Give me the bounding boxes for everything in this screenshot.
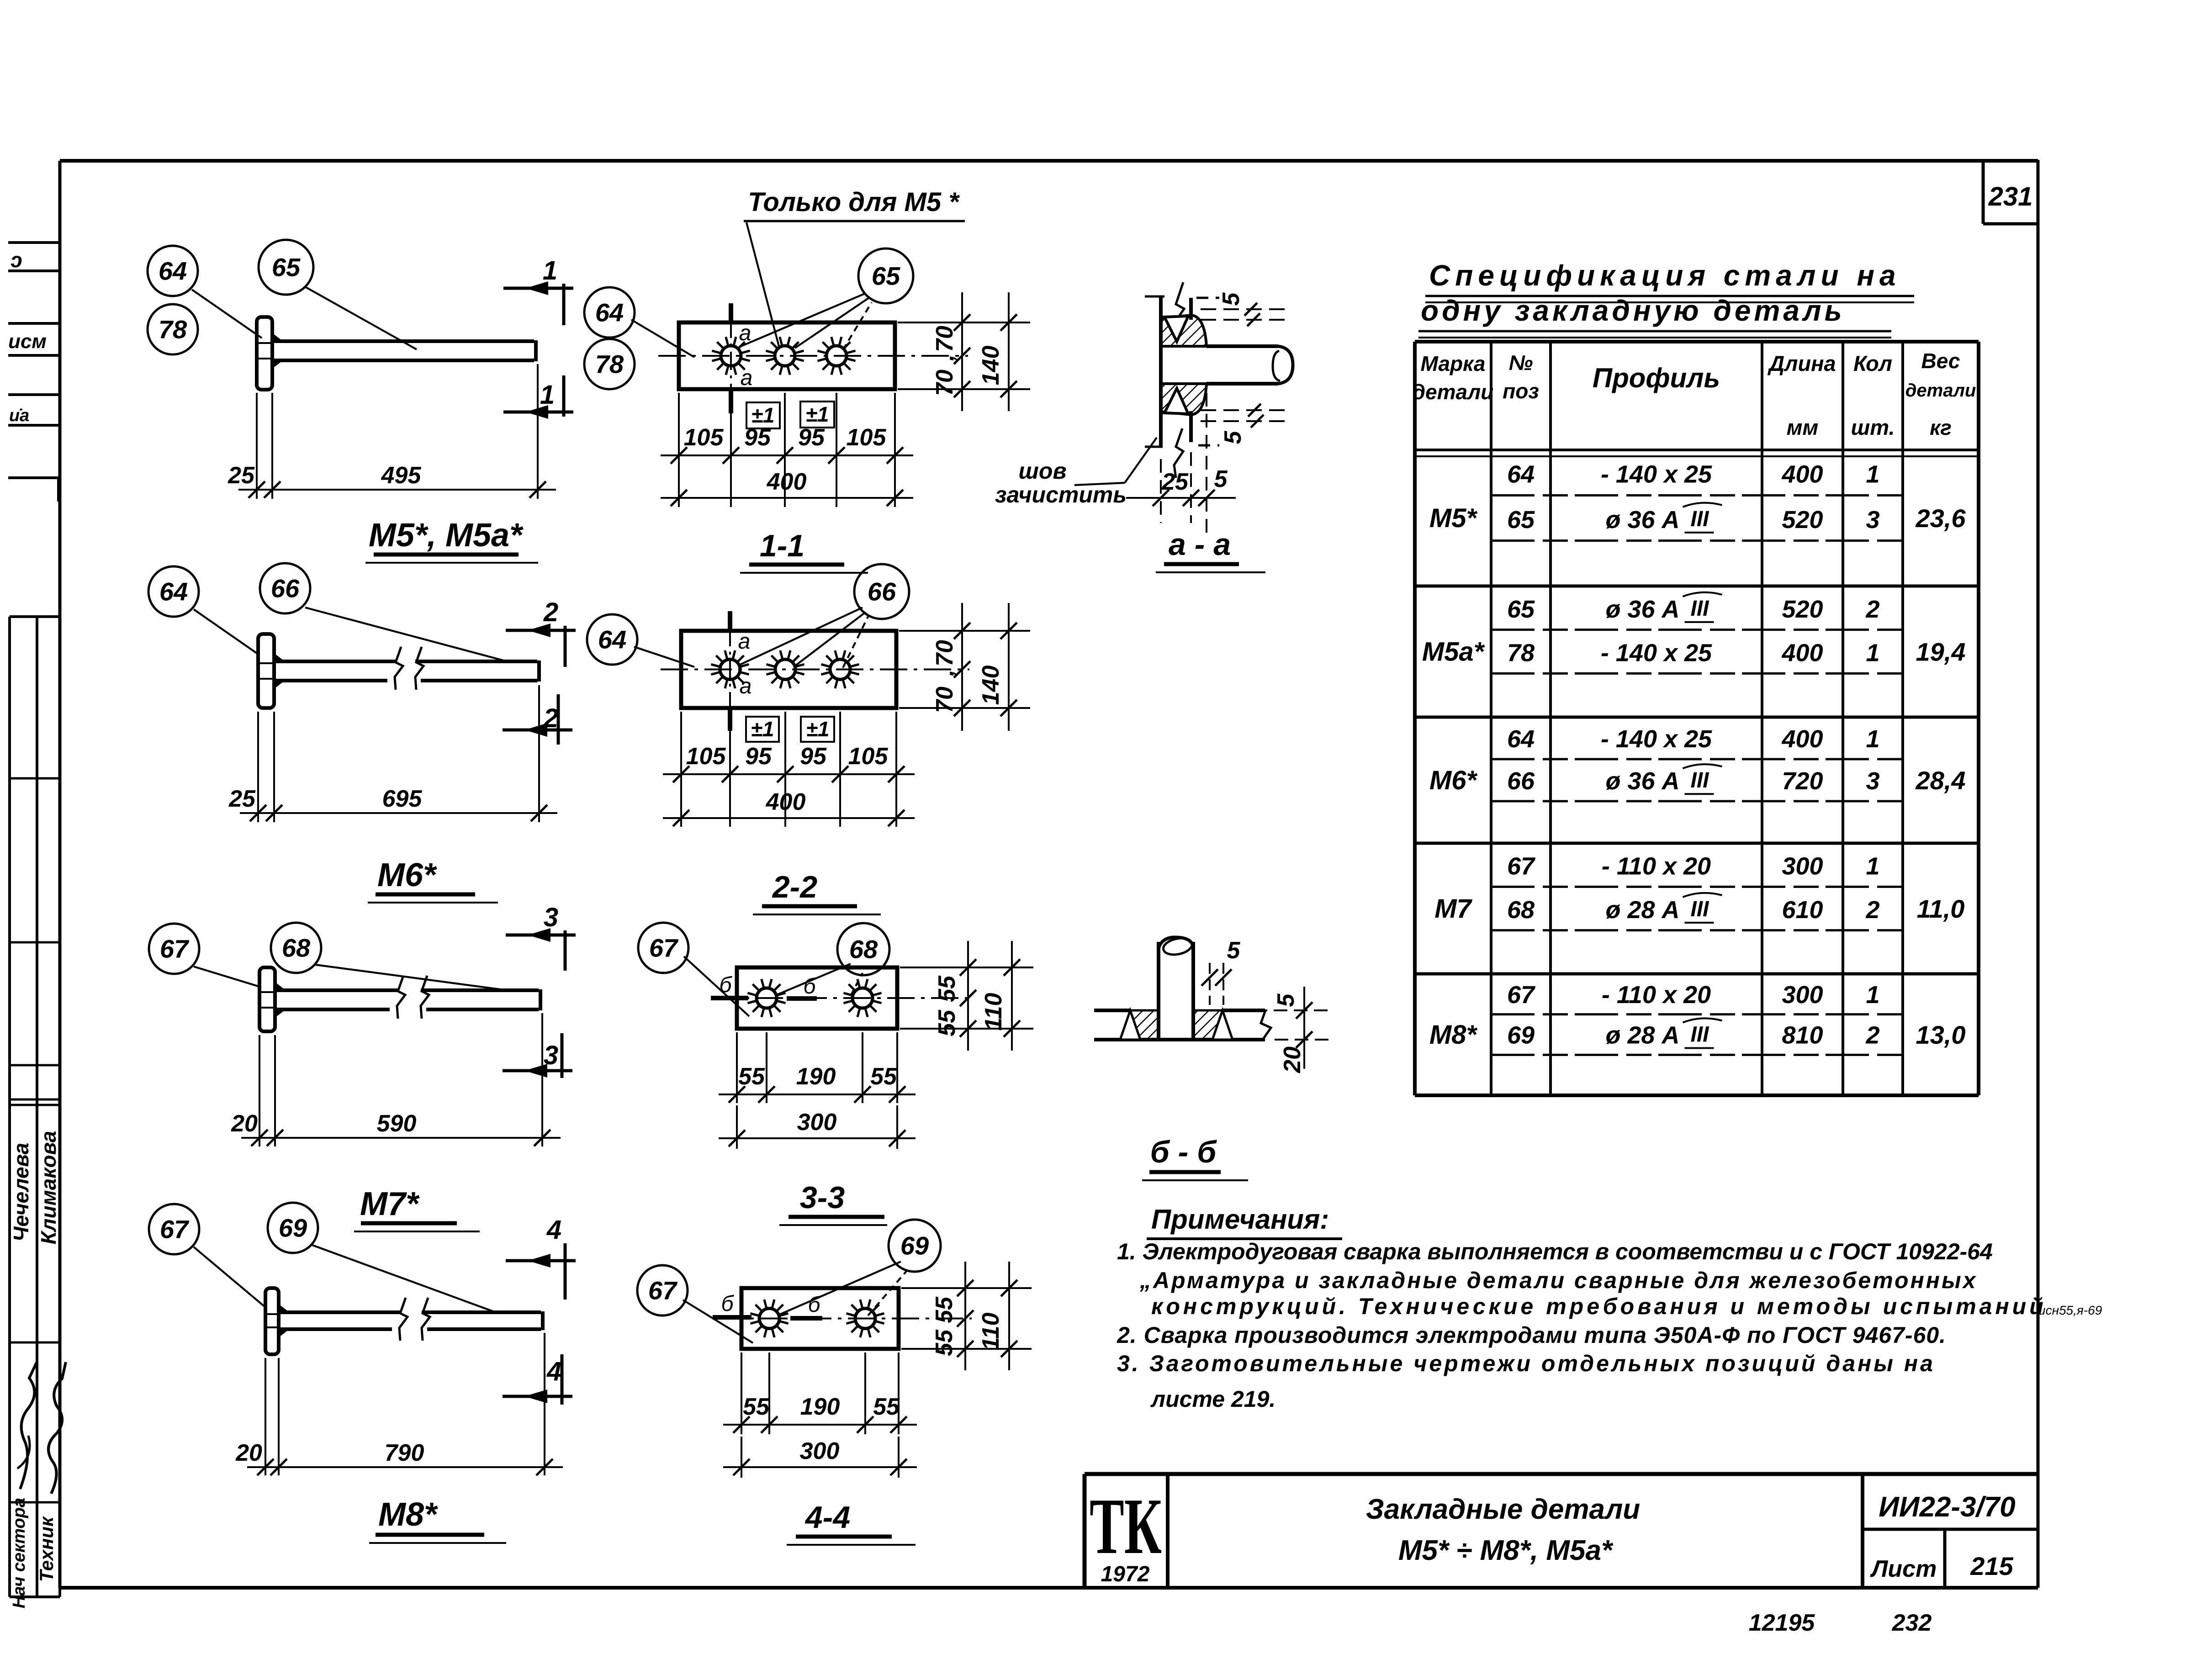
svg-text:3: 3 xyxy=(1866,506,1879,534)
svg-text:1: 1 xyxy=(543,256,557,285)
svg-text:ø 28 А: ø 28 А xyxy=(1605,1022,1679,1049)
svg-text:ИИ22-3/70: ИИ22-3/70 xyxy=(1879,1491,2015,1523)
svg-text:67: 67 xyxy=(160,1215,190,1244)
svg-text:III: III xyxy=(1690,1023,1709,1047)
svg-text:М6*: М6* xyxy=(377,857,437,893)
svg-text:4: 4 xyxy=(546,1357,561,1386)
svg-text:110: 110 xyxy=(980,993,1007,1030)
svg-text:67: 67 xyxy=(1507,981,1536,1009)
svg-text:ø 36 А: ø 36 А xyxy=(1605,596,1679,623)
svg-text:2: 2 xyxy=(543,703,558,733)
svg-text:- 140 x 25: - 140 x 25 xyxy=(1601,725,1712,753)
svg-text:28,4: 28,4 xyxy=(1916,766,1966,795)
svg-text:105: 105 xyxy=(847,424,887,451)
svg-text:„Арматура и закладные детали с: „Арматура и закладные детали сварные для… xyxy=(1139,1268,1977,1293)
svg-text:720: 720 xyxy=(1782,767,1823,795)
svg-text:поз: поз xyxy=(1503,379,1539,403)
svg-text:25: 25 xyxy=(228,462,255,489)
svg-text:a: a xyxy=(738,629,751,654)
svg-text:М7: М7 xyxy=(1434,894,1472,924)
svg-text:2-2: 2-2 xyxy=(772,870,817,904)
svg-text:зачистить: зачистить xyxy=(995,482,1127,507)
svg-text:67: 67 xyxy=(160,935,190,963)
svg-text:231: 231 xyxy=(1988,182,2033,211)
svg-text:105: 105 xyxy=(848,743,889,770)
svg-text:64: 64 xyxy=(159,577,188,606)
svg-text:400: 400 xyxy=(766,789,806,815)
svg-text:810: 810 xyxy=(1782,1022,1823,1049)
svg-text:66: 66 xyxy=(868,577,896,606)
svg-text:65: 65 xyxy=(872,262,900,291)
svg-text:400: 400 xyxy=(1781,461,1823,488)
svg-text:64: 64 xyxy=(1507,725,1535,753)
svg-text:695: 695 xyxy=(382,786,423,812)
svg-text:5: 5 xyxy=(1273,993,1299,1007)
svg-text:±1: ±1 xyxy=(806,402,829,426)
svg-text:64: 64 xyxy=(598,625,626,654)
svg-text:69: 69 xyxy=(279,1214,307,1242)
svg-text:1-1: 1-1 xyxy=(760,528,804,563)
svg-text:2: 2 xyxy=(1865,1022,1879,1049)
svg-text:2. Сварка производится электро: 2. Сварка производится электродами типа … xyxy=(1117,1322,1946,1348)
svg-text:68: 68 xyxy=(1507,896,1535,924)
svg-text:78: 78 xyxy=(1507,639,1535,667)
svg-text:Закладные детали: Закладные детали xyxy=(1366,1494,1640,1525)
svg-text:a: a xyxy=(740,674,752,698)
svg-text:III: III xyxy=(1690,768,1709,792)
svg-text:№: № xyxy=(1509,351,1533,375)
svg-text:мм: мм xyxy=(1787,415,1819,439)
svg-text:- 140 x 25: - 140 x 25 xyxy=(1601,461,1712,488)
svg-text:Чечелева: Чечелева xyxy=(9,1143,33,1242)
svg-text:95: 95 xyxy=(798,424,825,451)
svg-text:5: 5 xyxy=(1214,466,1228,492)
svg-text:ø 36 А: ø 36 А xyxy=(1605,767,1679,795)
svg-text:±1: ±1 xyxy=(751,717,774,741)
svg-text:3: 3 xyxy=(1866,767,1879,795)
svg-text:69: 69 xyxy=(1507,1022,1535,1049)
svg-text:Лист: Лист xyxy=(1870,1556,1937,1582)
svg-text:М8*: М8* xyxy=(1429,1020,1478,1050)
svg-text:4: 4 xyxy=(546,1215,561,1245)
svg-text:55: 55 xyxy=(931,1296,958,1323)
svg-text:Климакова: Климакова xyxy=(37,1131,60,1245)
svg-text:590: 590 xyxy=(377,1110,417,1137)
svg-text:300: 300 xyxy=(1782,853,1823,880)
svg-text:Примечания:: Примечания: xyxy=(1151,1204,1329,1235)
svg-text:ø 36 А: ø 36 А xyxy=(1605,506,1679,534)
svg-text:20: 20 xyxy=(1279,1046,1306,1073)
svg-text:±1: ±1 xyxy=(806,717,830,741)
svg-text:Вес: Вес xyxy=(1921,349,1960,373)
svg-text:ɔ: ɔ xyxy=(11,248,22,272)
svg-text:25: 25 xyxy=(228,786,256,812)
svg-text:Только для М5 *: Только для М5 * xyxy=(748,187,960,217)
svg-text:Длина: Длина xyxy=(1767,351,1836,375)
svg-text:Спецификация стали на: Спецификация стали на xyxy=(1429,259,1901,292)
svg-text:78: 78 xyxy=(595,350,624,379)
svg-text:a: a xyxy=(741,366,753,390)
svg-text:105: 105 xyxy=(684,424,724,451)
svg-text:13,0: 13,0 xyxy=(1916,1020,1966,1049)
svg-text:б: б xyxy=(720,973,733,997)
svg-text:67: 67 xyxy=(648,1276,678,1305)
svg-text:шт.: шт. xyxy=(1851,415,1895,439)
svg-text:12195: 12195 xyxy=(1749,1610,1815,1636)
svg-text:68: 68 xyxy=(849,935,878,964)
svg-text:64: 64 xyxy=(595,298,624,327)
svg-text:64: 64 xyxy=(159,257,187,285)
svg-text:55: 55 xyxy=(743,1394,770,1420)
svg-text:1: 1 xyxy=(1866,725,1879,753)
svg-text:55: 55 xyxy=(738,1063,765,1090)
svg-text:55: 55 xyxy=(870,1063,897,1090)
svg-text:Марка: Марка xyxy=(1420,352,1485,375)
svg-text:66: 66 xyxy=(1507,767,1535,795)
svg-text:Нач сектора: Нач сектора xyxy=(10,1498,29,1608)
svg-text:70: 70 xyxy=(931,687,958,713)
svg-text:215: 215 xyxy=(1970,1552,2013,1580)
svg-text:23,6: 23,6 xyxy=(1916,504,1966,533)
svg-text:5: 5 xyxy=(1220,430,1246,444)
svg-text:М8*: М8* xyxy=(378,1496,438,1533)
svg-text:исн55,я-69: исн55,я-69 xyxy=(2038,1303,2102,1317)
svg-text:65: 65 xyxy=(272,253,301,282)
svg-text:2: 2 xyxy=(1865,596,1879,623)
svg-text:3: 3 xyxy=(544,1041,558,1070)
svg-text:III: III xyxy=(1690,597,1709,621)
svg-text:70: 70 xyxy=(931,326,958,352)
svg-text:67: 67 xyxy=(1507,853,1536,880)
svg-text:,: , xyxy=(932,354,959,361)
svg-text:4-4: 4-4 xyxy=(804,1500,850,1535)
svg-text:Техник: Техник xyxy=(36,1516,57,1582)
svg-text:110: 110 xyxy=(978,1312,1004,1350)
svg-text:Кол: Кол xyxy=(1853,351,1892,375)
svg-text:400: 400 xyxy=(1781,639,1823,667)
svg-text:55: 55 xyxy=(873,1394,900,1420)
svg-text:95: 95 xyxy=(745,743,772,770)
svg-text:70: 70 xyxy=(931,640,958,666)
svg-text:3. Заготовительные чертежи отд: 3. Заготовительные чертежи отдельных поз… xyxy=(1117,1351,1935,1376)
svg-text:95: 95 xyxy=(744,424,771,451)
svg-text:190: 190 xyxy=(796,1063,836,1090)
svg-text:19,4: 19,4 xyxy=(1916,638,1966,666)
svg-text:листе 219.: листе 219. xyxy=(1150,1386,1275,1412)
svg-text:520: 520 xyxy=(1782,506,1823,534)
svg-text:М5*: М5* xyxy=(1429,503,1478,533)
svg-text:- 110 x 20: - 110 x 20 xyxy=(1602,853,1711,880)
svg-text:790: 790 xyxy=(385,1440,424,1466)
svg-text:1972: 1972 xyxy=(1101,1562,1150,1586)
svg-text:М7*: М7* xyxy=(360,1186,420,1222)
svg-text:б - б: б - б xyxy=(1150,1135,1217,1169)
svg-text:190: 190 xyxy=(800,1394,840,1420)
svg-text:65: 65 xyxy=(1507,506,1535,534)
svg-text:1: 1 xyxy=(1866,981,1879,1009)
svg-text:64: 64 xyxy=(1507,461,1535,488)
svg-text:5: 5 xyxy=(1218,292,1244,306)
svg-text:20: 20 xyxy=(231,1110,258,1137)
svg-text:- 140 x 25: - 140 x 25 xyxy=(1601,639,1712,667)
svg-text:55: 55 xyxy=(934,975,960,1002)
svg-text:495: 495 xyxy=(381,462,422,489)
svg-text:69: 69 xyxy=(900,1231,929,1260)
svg-text:М5* ÷ М8*, М5а*: М5* ÷ М8*, М5а* xyxy=(1398,1535,1614,1566)
svg-text:1: 1 xyxy=(540,380,555,410)
svg-text:67: 67 xyxy=(649,934,679,962)
svg-text:140: 140 xyxy=(978,666,1004,705)
svg-text:III: III xyxy=(1690,897,1709,921)
svg-text:105: 105 xyxy=(686,743,726,770)
svg-text:одну закладную деталь: одну закладную деталь xyxy=(1421,294,1845,327)
svg-text:1: 1 xyxy=(1866,853,1879,880)
svg-text:б: б xyxy=(721,1292,735,1316)
svg-text:68: 68 xyxy=(282,934,311,962)
svg-text:1: 1 xyxy=(1866,639,1879,667)
svg-text:400: 400 xyxy=(767,469,807,495)
svg-text:20: 20 xyxy=(235,1440,262,1466)
svg-text:детали: детали xyxy=(1413,380,1494,404)
svg-text:5: 5 xyxy=(1227,937,1241,964)
svg-text:232: 232 xyxy=(1892,1610,1932,1636)
svg-text:М5а*: М5а* xyxy=(1422,637,1485,667)
svg-text:3: 3 xyxy=(544,903,558,932)
svg-text:610: 610 xyxy=(1782,896,1823,924)
svg-text:М6*: М6* xyxy=(1429,766,1478,795)
svg-text:1. Электродуговая сварка выпол: 1. Электродуговая сварка выполняется в с… xyxy=(1117,1239,1993,1264)
svg-text:исм: исм xyxy=(8,330,47,353)
svg-text:шов: шов xyxy=(1018,458,1066,484)
svg-text:95: 95 xyxy=(800,743,827,770)
svg-text:11,0: 11,0 xyxy=(1917,894,1965,923)
svg-text:III: III xyxy=(1690,507,1709,531)
svg-text:и̇а: и̇а xyxy=(9,406,29,425)
svg-text:М5*, М5а*: М5*, М5а* xyxy=(369,517,524,554)
svg-text:300: 300 xyxy=(797,1109,837,1136)
svg-text:ТК: ТК xyxy=(1090,1482,1162,1570)
svg-text:78: 78 xyxy=(159,315,187,344)
svg-text:,: , xyxy=(932,670,959,676)
svg-text:66: 66 xyxy=(271,574,300,603)
svg-text:2: 2 xyxy=(1865,896,1879,924)
svg-text:300: 300 xyxy=(1782,981,1823,1009)
svg-text:конструкций. Технические требо: конструкций. Технические требования и ме… xyxy=(1151,1294,2047,1319)
svg-text:55: 55 xyxy=(931,1329,958,1356)
svg-text:400: 400 xyxy=(1781,725,1823,753)
svg-text:70: 70 xyxy=(931,370,958,396)
svg-text:1: 1 xyxy=(1866,461,1879,488)
svg-text:ø 28 А: ø 28 А xyxy=(1605,896,1679,924)
svg-text:65: 65 xyxy=(1507,596,1535,623)
svg-text:а - а: а - а xyxy=(1169,527,1231,562)
svg-text:2: 2 xyxy=(543,597,558,627)
svg-text:кг: кг xyxy=(1930,416,1952,439)
svg-text:55: 55 xyxy=(934,1009,960,1036)
svg-text:25: 25 xyxy=(1161,469,1189,495)
svg-text:- 110 x 20: - 110 x 20 xyxy=(1602,981,1711,1009)
svg-text:детали: детали xyxy=(1905,380,1976,401)
svg-text:3-3: 3-3 xyxy=(800,1180,845,1215)
svg-text:140: 140 xyxy=(978,346,1004,386)
svg-text:±1: ±1 xyxy=(752,403,775,427)
svg-text:Профиль: Профиль xyxy=(1593,363,1720,393)
svg-text:300: 300 xyxy=(800,1438,840,1464)
svg-text:520: 520 xyxy=(1782,596,1823,623)
